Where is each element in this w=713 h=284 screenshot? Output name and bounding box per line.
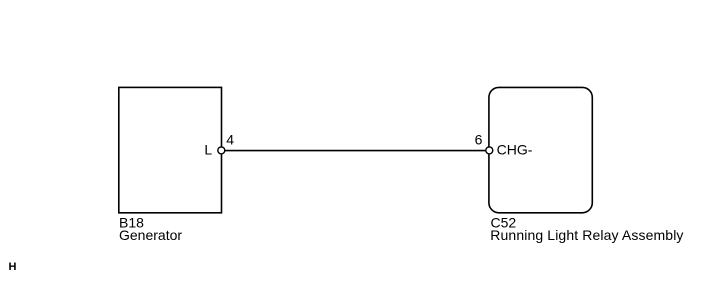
svg-text:6: 6 <box>475 132 483 148</box>
svg-text:CHG-: CHG- <box>497 142 533 158</box>
svg-text:4: 4 <box>226 132 234 148</box>
connector C52 box <box>489 87 592 212</box>
svg-text:L: L <box>204 142 212 158</box>
svg-text:H: H <box>9 261 17 273</box>
svg-text:Running Light Relay Assembly: Running Light Relay Assembly <box>490 227 683 243</box>
terminal circle pin 4 <box>218 147 225 154</box>
connector B18 box <box>119 87 222 212</box>
svg-text:Generator: Generator <box>119 227 182 243</box>
wire (pin 4 of B18 to pin 6 of C52) <box>221 150 489 152</box>
terminal circle pin 6 <box>486 147 493 154</box>
